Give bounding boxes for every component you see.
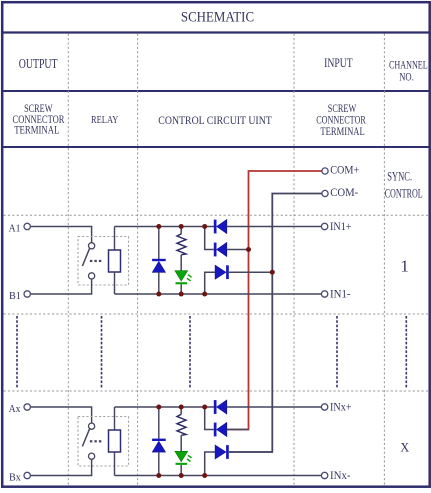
- LED LED1: [175, 271, 192, 294]
- junction node (stub top, ch 1): [202, 224, 207, 229]
- top bus wire (coil to diode): [115, 406, 215, 408]
- continuation dashes (control circuit): [189, 316, 191, 388]
- continuation dashes (channel no column): [405, 316, 407, 388]
- relay Kx contact (top): [89, 423, 95, 429]
- bottom bus wire to IN1-: [115, 293, 322, 295]
- flyback diode D1a across coil: [152, 227, 166, 295]
- junction node (COM- line / D1d): [270, 270, 275, 275]
- wire relay contact to Bx: [31, 459, 92, 475]
- svg-text:NO.: NO.: [399, 70, 414, 84]
- svg-text:IN1+: IN1+: [330, 221, 352, 233]
- junction node (flyback top, ch x): [156, 405, 161, 410]
- relay K1 coil: [109, 250, 121, 272]
- relay K1 contact (top): [89, 243, 95, 249]
- series diode Dxb to INx+: [214, 400, 227, 414]
- svg-text:OUTPUT: OUTPUT: [19, 56, 58, 71]
- resistor Rx: [177, 407, 186, 451]
- svg-text:INx+: INx+: [330, 402, 352, 414]
- flyback diode Dxa across coil: [152, 407, 166, 476]
- column divider: relay/control-circuit: [137, 34, 139, 486]
- header label SCREW CONNECTOR TERMINAL (left): [13, 103, 65, 137]
- diode D1d to COM-: [205, 265, 273, 294]
- column divider: input/channel-no: [383, 34, 385, 486]
- relay K1 actuator link dots: [90, 260, 101, 262]
- wire A1 to relay contact: [31, 227, 92, 243]
- svg-text:COM-: COM-: [330, 187, 358, 199]
- wire relay contact to B1: [31, 279, 92, 294]
- header bottom border line: [2, 146, 429, 148]
- wire diode to terminal IN1+: [227, 226, 321, 228]
- header label SCREW CONNECTOR TERMINAL (right): [316, 103, 366, 138]
- junction node (COM+ line / D1c): [246, 247, 251, 252]
- terminal INx-: [321, 470, 350, 482]
- svg-text:INx-: INx-: [330, 470, 351, 482]
- junction node (resistor top, ch x): [179, 405, 184, 410]
- svg-text:B1: B1: [9, 290, 21, 302]
- bottom bus wire to INx-: [115, 475, 322, 477]
- terminal Ax: [9, 403, 31, 415]
- terminal IN1+: [321, 221, 351, 233]
- diode Dxc to COM+: [205, 407, 249, 437]
- junction node (flyback bottom, ch x): [156, 473, 161, 478]
- wire Ax to relay contact: [31, 407, 92, 423]
- svg-text:CONTROL CIRCUIT UINT: CONTROL CIRCUIT UINT: [158, 113, 272, 127]
- continuation dashes (left terminals): [16, 316, 18, 388]
- svg-text:RELAY: RELAY: [91, 114, 119, 126]
- terminal Bx: [9, 472, 30, 484]
- svg-text:CONTROL: CONTROL: [385, 185, 423, 200]
- svg-text:SCREW: SCREW: [328, 103, 357, 115]
- junction node (stub top, ch x): [202, 405, 207, 410]
- svg-text:INPUT: INPUT: [324, 56, 353, 70]
- relay Kx switch blade: [82, 429, 89, 447]
- terminal B1: [9, 290, 30, 302]
- row divider: top of channel 1 block: [4, 214, 429, 216]
- top bus wire (coil to diode): [115, 226, 215, 228]
- svg-text:TERMINAL: TERMINAL: [320, 126, 364, 138]
- svg-text:A1: A1: [9, 223, 21, 235]
- junction node (led bottom, ch x): [179, 473, 184, 478]
- series diode D1b to IN1+: [214, 220, 227, 234]
- svg-text:IN1-: IN1-: [330, 289, 351, 301]
- row divider: top of channel x block: [4, 390, 429, 392]
- svg-text:CONNECTOR: CONNECTOR: [316, 115, 366, 127]
- row divider: bottom of channel 1 block: [4, 313, 429, 315]
- relay Kx coil: [109, 430, 121, 452]
- continuation dashes (relay column): [101, 316, 103, 388]
- svg-text:SYNC.: SYNC.: [387, 168, 412, 183]
- terminal COM+: [322, 165, 359, 177]
- LED LEDx: [175, 451, 192, 475]
- relay Kx contact (bottom): [89, 453, 95, 459]
- diode Dxd to COM-: [205, 445, 273, 476]
- terminal IN1-: [321, 289, 350, 301]
- relay Kx coil wire (top): [114, 407, 116, 430]
- relay K1 contact (bottom): [89, 273, 95, 279]
- svg-text:Ax: Ax: [9, 403, 21, 415]
- wire diode to terminal INx+: [227, 406, 321, 408]
- continuation dashes (input terminals): [336, 316, 338, 388]
- relay Kx coil wire (bottom): [114, 452, 116, 476]
- relay K1 coil wire (top): [114, 227, 116, 251]
- diode D1c to COM+: [205, 227, 249, 257]
- wire COM+ (red) to channel diodes: [227, 171, 322, 430]
- label SYNC. CONTROL: [385, 168, 423, 200]
- relay K1 dashed enclosure: [78, 237, 129, 286]
- column divider: output/relay: [67, 34, 69, 486]
- svg-text:SCHEMATIC: SCHEMATIC: [181, 10, 254, 26]
- terminal INx+: [321, 402, 351, 414]
- terminal A1: [9, 223, 31, 235]
- svg-text:X: X: [400, 441, 409, 455]
- resistor R1: [177, 227, 186, 271]
- header label CHANNEL NO.: [389, 58, 428, 84]
- junction node (flyback top, ch 1): [156, 224, 161, 229]
- svg-text:1: 1: [400, 257, 409, 276]
- junction node (led bottom, ch 1): [179, 292, 184, 297]
- relay Kx dashed enclosure: [78, 417, 129, 467]
- svg-text:COM+: COM+: [330, 165, 359, 177]
- relay K1 switch blade: [82, 248, 89, 266]
- svg-text:Bx: Bx: [9, 472, 21, 484]
- title underline: [2, 31, 429, 33]
- header row divider line: [2, 90, 429, 92]
- svg-text:TERMINAL: TERMINAL: [14, 125, 59, 137]
- relay K1 coil wire (bottom): [114, 272, 116, 294]
- junction node (stub bottom, ch 1): [202, 292, 207, 297]
- junction node (flyback bottom, ch 1): [156, 292, 161, 297]
- junction node (resistor top, ch 1): [179, 224, 184, 229]
- junction node (stub bottom, ch x): [202, 473, 207, 478]
- column divider: control-circuit/input: [293, 34, 295, 486]
- terminal COM-: [322, 187, 359, 199]
- wire COM- (navy) to channel diodes: [229, 194, 322, 453]
- relay Kx actuator link dots: [90, 440, 101, 442]
